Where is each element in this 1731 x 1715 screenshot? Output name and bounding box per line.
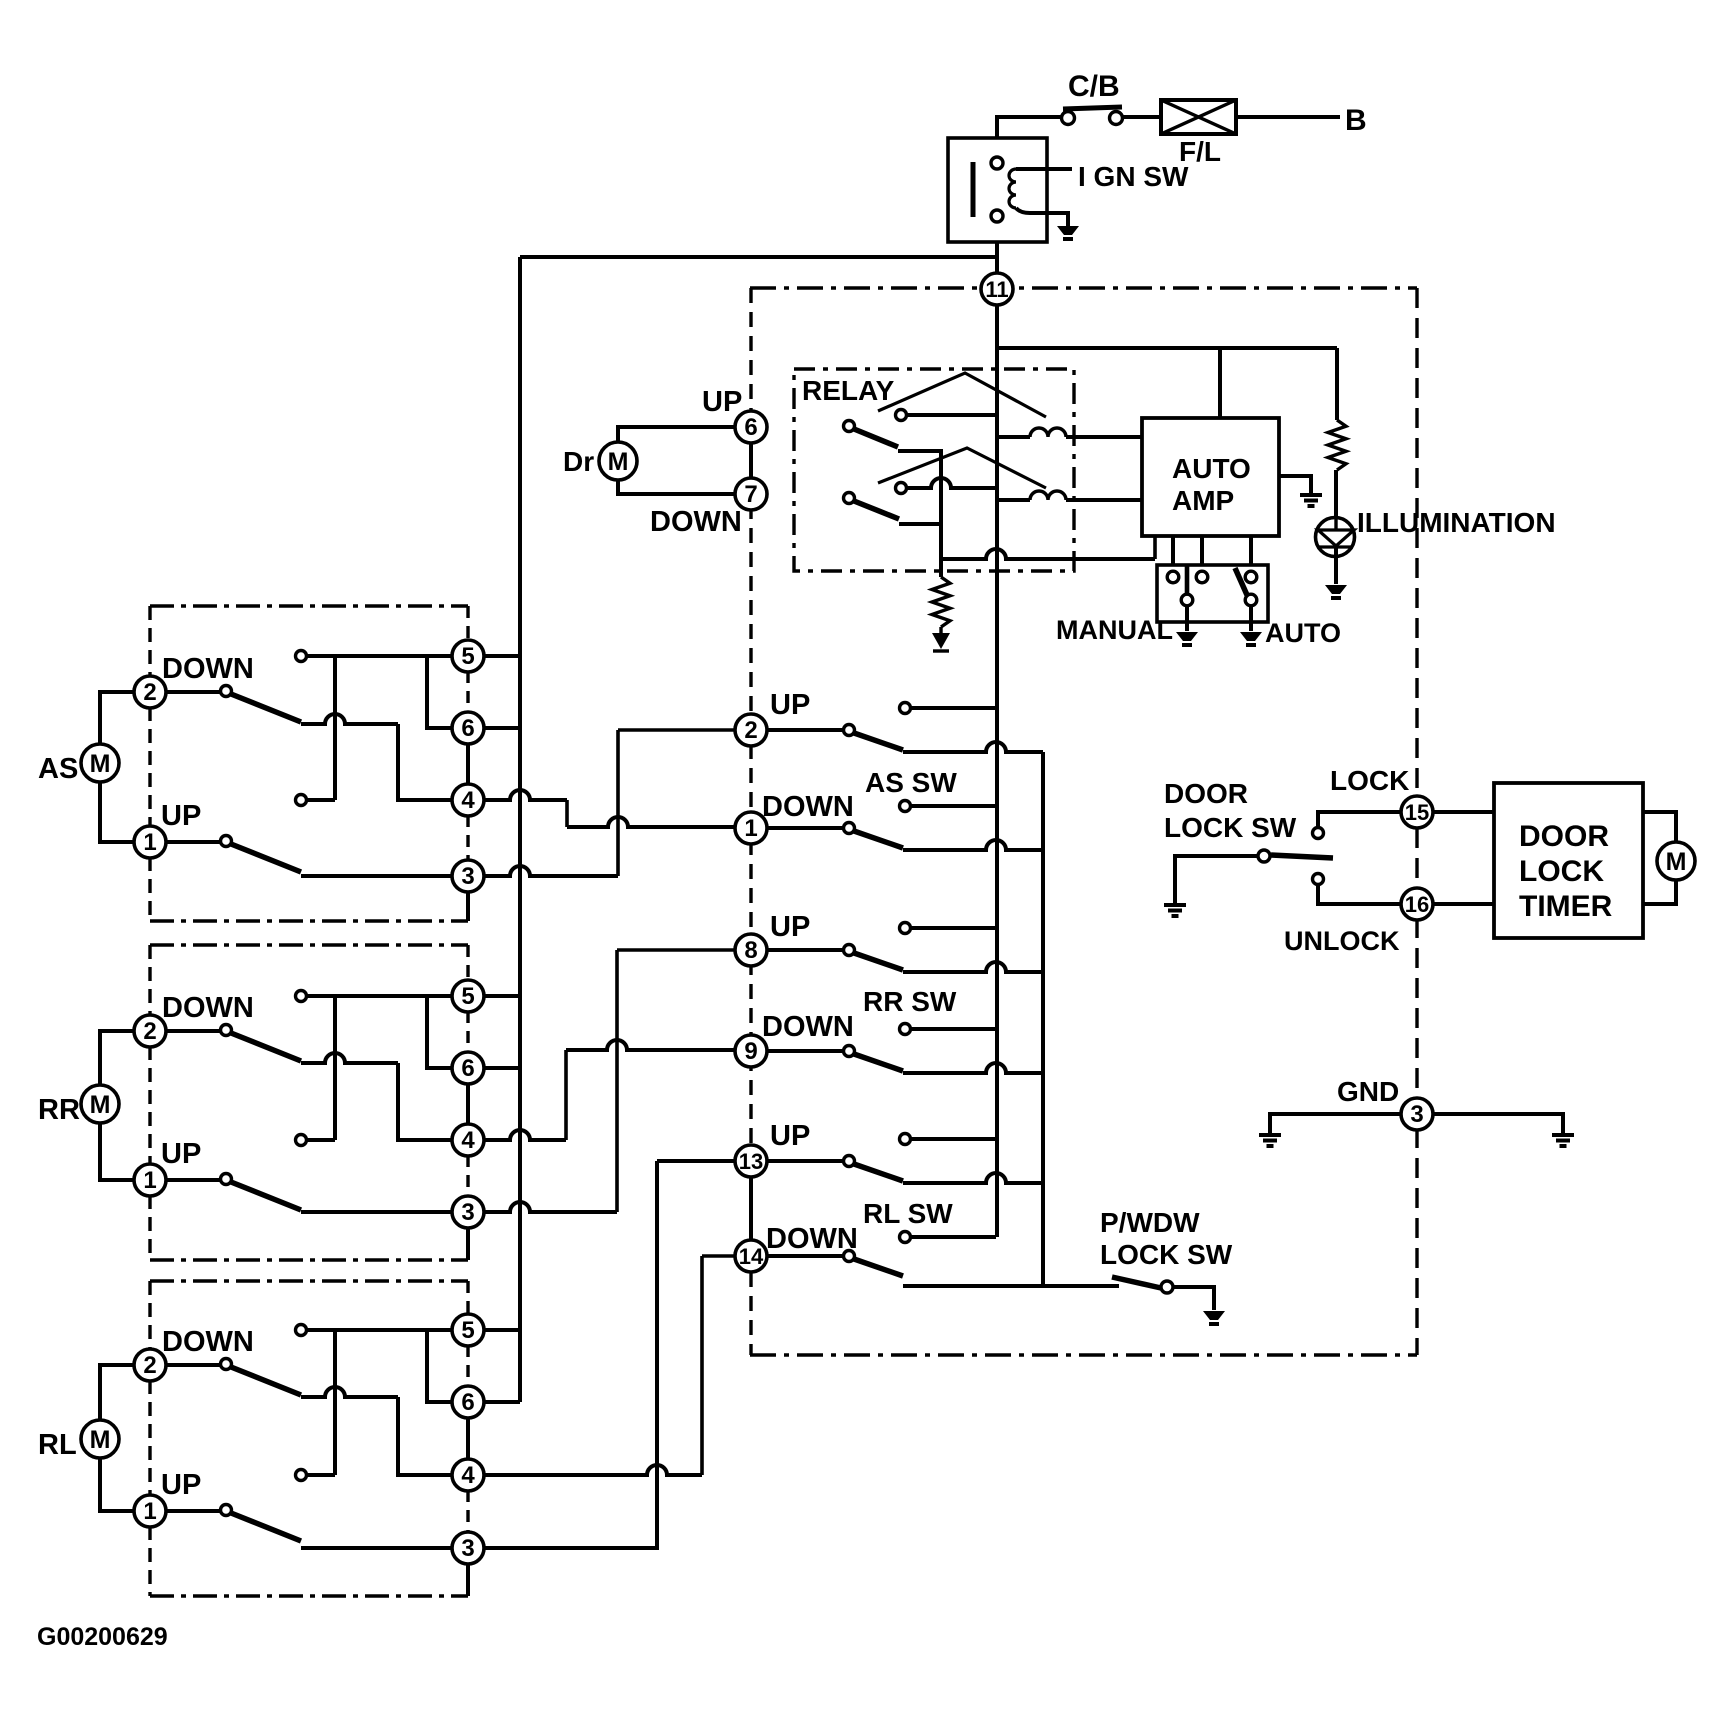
svg-text:13: 13 bbox=[739, 1149, 763, 1174]
ground (ignition switch) bbox=[1057, 226, 1079, 235]
svg-text:5: 5 bbox=[461, 1317, 474, 1344]
switch pivot (AS SW up) bbox=[844, 725, 855, 736]
svg-text:2: 2 bbox=[143, 679, 156, 706]
RL down switch pivot bbox=[221, 1359, 232, 1370]
svg-text:UP: UP bbox=[770, 689, 810, 721]
switch output link bus (right of main bus) bbox=[1041, 752, 1045, 1286]
ignition switch contact (bottom) bbox=[991, 210, 1003, 222]
RL terminal 4 bbox=[452, 1459, 484, 1491]
switch pivot (RR SW down) bbox=[844, 1046, 855, 1057]
selector contact auto-top bbox=[1245, 571, 1257, 583]
svg-text:9: 9 bbox=[744, 1038, 757, 1065]
ground (manual) bbox=[1176, 632, 1198, 641]
wire: AS contact row to terminal 5 bbox=[307, 654, 452, 658]
wire: AS SW down contact to main bus bbox=[911, 804, 996, 808]
terminal 8 wire to pivot bbox=[766, 948, 844, 952]
svg-text:ILLUMINATION: ILLUMINATION bbox=[1357, 507, 1556, 538]
RR lower contact bbox=[296, 1135, 307, 1146]
svg-text:15: 15 bbox=[1405, 800, 1429, 825]
AS window motor bbox=[81, 744, 119, 782]
svg-text:B: B bbox=[1345, 104, 1367, 137]
switch contact (RR SW down) bbox=[900, 1024, 911, 1035]
svg-text:5: 5 bbox=[461, 643, 474, 670]
terminal 14 wire to pivot bbox=[766, 1254, 844, 1258]
ground (auto amp) bbox=[1300, 493, 1322, 497]
wire: RR contact row to terminal 5 bbox=[307, 994, 452, 998]
wire: RR SW up blade output bbox=[903, 962, 1043, 972]
terminal 1 bbox=[735, 812, 767, 844]
svg-text:RR SW: RR SW bbox=[863, 986, 957, 1017]
relay coil 2 bbox=[996, 498, 1030, 502]
wire: RL terminal 4 to switch terminal 14 (hops RL link) bbox=[483, 1465, 702, 1475]
svg-text:1: 1 bbox=[143, 829, 156, 856]
svg-text:AS: AS bbox=[38, 753, 78, 785]
ground (GND left) bbox=[1259, 1133, 1281, 1137]
door lock switch pivot bbox=[1258, 850, 1270, 862]
svg-text:8: 8 bbox=[744, 937, 757, 964]
terminal 2 bbox=[735, 714, 767, 746]
svg-text:RR: RR bbox=[38, 1094, 80, 1126]
wire: RL lower contact stub bbox=[307, 1473, 335, 1477]
wire: AS terminal 3 to switch terminal 2 (hops left bus) bbox=[484, 866, 618, 876]
wire: ignition output to left bus bbox=[520, 255, 996, 259]
svg-text:11: 11 bbox=[985, 277, 1008, 302]
wire: RL motor to terminal 1 bbox=[100, 1458, 135, 1511]
switch pivot (RL SW up) bbox=[844, 1156, 855, 1167]
wire: fusible link to circuit breaker bbox=[1123, 115, 1161, 119]
selector manual pole contact bbox=[1181, 594, 1193, 606]
wire: AS terminal 6 to left bus bbox=[484, 726, 520, 730]
switch blade (RR SW down) bbox=[854, 1054, 903, 1071]
selector contact manual-top-1 bbox=[1167, 571, 1179, 583]
terminal 7 wire to driver motor bbox=[618, 480, 736, 494]
RL terminal 1 bbox=[134, 1495, 166, 1527]
svg-text:RELAY: RELAY bbox=[802, 375, 895, 406]
svg-text:C/B: C/B bbox=[1068, 70, 1120, 103]
RL terminal 6 bbox=[452, 1386, 484, 1418]
AS up switch blade bbox=[231, 844, 301, 872]
svg-text:LOCK: LOCK bbox=[1330, 765, 1409, 796]
wire: RR lower contact stub bbox=[307, 1138, 335, 1142]
wire: AS lower contact stub bbox=[307, 798, 335, 802]
wire: selector manual pole to ground bbox=[1185, 606, 1189, 631]
svg-text:6: 6 bbox=[461, 715, 474, 742]
wire: RL contact row to terminal 5 bbox=[307, 1328, 452, 1332]
relay dashed box bbox=[794, 369, 1074, 571]
AS internal link vertical bbox=[333, 656, 337, 800]
svg-text:DOWN: DOWN bbox=[650, 506, 742, 538]
wire: AS terminal 4 to switch terminal 1 (hops buses) bbox=[484, 790, 567, 800]
AS terminal 1 bbox=[134, 826, 166, 858]
door lock switch blade bbox=[1271, 855, 1333, 858]
svg-text:UP: UP bbox=[770, 911, 810, 943]
terminal 1 wire to pivot bbox=[766, 826, 844, 830]
RR up switch output wire to terminal 3 bbox=[301, 1210, 452, 1214]
AS lower contact bbox=[296, 795, 307, 806]
ignition switch coil bbox=[1009, 169, 1016, 208]
wire: timer to door lock motor (top) bbox=[1643, 812, 1676, 843]
RR window motor bbox=[81, 1085, 119, 1123]
AS terminal 6 bbox=[452, 712, 484, 744]
svg-text:M: M bbox=[90, 750, 111, 778]
switch pivot (RR SW up) bbox=[844, 945, 855, 956]
svg-text:LOCK: LOCK bbox=[1519, 855, 1604, 888]
RL terminal 2 wire to switch pivot bbox=[165, 1363, 220, 1367]
selector auto blade bbox=[1235, 568, 1247, 595]
AS terminal 5 bbox=[452, 640, 484, 672]
RL terminal 2 bbox=[134, 1349, 166, 1381]
svg-text:DOWN: DOWN bbox=[762, 1011, 854, 1043]
RL terminal 5 bbox=[452, 1314, 484, 1346]
svg-text:LOCK SW: LOCK SW bbox=[1100, 1239, 1233, 1270]
relay switch lower: pivot and blade bbox=[844, 493, 855, 504]
ground (illumination) bbox=[1325, 585, 1347, 594]
svg-text:Dr: Dr bbox=[563, 446, 594, 477]
wire: terminal 6 internal link bbox=[427, 996, 452, 1068]
svg-text:M: M bbox=[608, 448, 629, 476]
svg-text:4: 4 bbox=[461, 787, 475, 814]
switch blade (AS SW down) bbox=[854, 831, 903, 848]
terminal 13 wire to pivot bbox=[766, 1159, 844, 1163]
RR terminal 2 wire to switch pivot bbox=[165, 1029, 220, 1033]
relay switch upper: pivot and blade bbox=[844, 421, 855, 432]
svg-text:P/WDW: P/WDW bbox=[1100, 1207, 1200, 1238]
solid link between terminals 6 and 7 bbox=[749, 443, 753, 478]
wire: RL SW down contact to main bus bbox=[911, 1235, 996, 1239]
RR terminal 3 bbox=[452, 1196, 484, 1228]
AS terminal 4 bbox=[452, 784, 484, 816]
RR solid link terminal 3 to box bottom bbox=[466, 1227, 470, 1260]
switch blade (RR SW up) bbox=[854, 953, 903, 970]
wire: RR terminal 4 to switch terminal 9 (hops buses) bbox=[484, 1130, 566, 1140]
RL internal link vertical bbox=[333, 1330, 337, 1475]
relay lower switch output wire bbox=[899, 522, 941, 526]
solid link between terminals 13 and 14 bbox=[749, 1177, 753, 1240]
terminal 9 wire to pivot bbox=[766, 1049, 844, 1053]
RR down switch output wire (jog to terminal 4) bbox=[301, 1053, 398, 1063]
relay upper NC contact bbox=[896, 410, 907, 421]
RL terminal 1 wire to switch pivot bbox=[165, 1509, 220, 1513]
svg-text:M: M bbox=[90, 1091, 111, 1119]
illumination lamp bbox=[1316, 518, 1355, 557]
wire: RR terminal 6 to left bus bbox=[484, 1066, 520, 1070]
wire: door lock switch pole to ground bbox=[1175, 856, 1258, 904]
svg-text:DOWN: DOWN bbox=[162, 1326, 254, 1358]
left bus (window switch feed) bbox=[518, 257, 522, 1402]
wire: AS motor to terminal 2 bbox=[100, 692, 135, 744]
svg-text:RL SW: RL SW bbox=[863, 1198, 953, 1229]
svg-text:14: 14 bbox=[739, 1244, 764, 1269]
RR down switch blade bbox=[231, 1033, 301, 1061]
terminal 6 wire to driver motor bbox=[618, 427, 736, 442]
door lock timer box bbox=[1494, 783, 1643, 938]
RR terminal 5 bbox=[452, 980, 484, 1012]
wire: GND node to left ground bbox=[1270, 1114, 1402, 1134]
AS down switch pivot bbox=[221, 686, 232, 697]
switch contact (RL SW down) bbox=[900, 1232, 911, 1243]
RL upper contact (to terminal 5) bbox=[296, 1325, 307, 1336]
wire: auto amp to ground (right) bbox=[1279, 476, 1311, 494]
RR window switch box (dashed) bbox=[150, 943, 468, 946]
svg-text:M: M bbox=[90, 1426, 111, 1454]
svg-text:LOCK SW: LOCK SW bbox=[1164, 812, 1297, 843]
wire: AS SW up blade output bbox=[903, 742, 1043, 752]
terminal 14 bbox=[735, 1240, 767, 1272]
wire: RR terminal 5 to left bus bbox=[484, 994, 520, 998]
svg-text:1: 1 bbox=[143, 1498, 156, 1525]
AS solid link terminal 3 to box bottom bbox=[466, 891, 470, 921]
svg-text:AUTO: AUTO bbox=[1172, 453, 1251, 484]
auto amp pin 2 to selector bbox=[1200, 536, 1204, 566]
wire: lamp to ground bbox=[1334, 547, 1338, 584]
svg-text:G00200629: G00200629 bbox=[37, 1623, 168, 1651]
wire: battery feed B to fusible link bbox=[1237, 115, 1340, 119]
relay actuator arrow (upper) bbox=[878, 373, 1046, 417]
svg-text:3: 3 bbox=[461, 1535, 474, 1562]
wire: GND node to right ground bbox=[1433, 1114, 1563, 1134]
svg-text:RL: RL bbox=[38, 1429, 77, 1461]
svg-text:GND: GND bbox=[1337, 1076, 1399, 1107]
RL up switch pivot bbox=[221, 1505, 232, 1516]
svg-text:4: 4 bbox=[461, 1462, 475, 1489]
power window lock switch blade bbox=[1112, 1277, 1161, 1288]
terminal 7 bbox=[735, 478, 767, 510]
wire: RR SW up contact to main bus bbox=[911, 926, 996, 930]
RR internal link vertical bbox=[333, 996, 337, 1140]
ground arrow (relay resistor) bbox=[939, 627, 942, 633]
RL up switch blade bbox=[231, 1513, 301, 1541]
svg-text:DOOR: DOOR bbox=[1164, 778, 1248, 809]
wire: main bus to auto amp top / illumination feed bbox=[996, 346, 1337, 350]
svg-text:TIMER: TIMER bbox=[1519, 890, 1613, 923]
wire: terminal 15 to door lock timer bbox=[1433, 810, 1494, 814]
relay common wire down to resistor bbox=[939, 524, 943, 577]
wire: RR SW down blade output bbox=[903, 1063, 1043, 1073]
auto amp box bbox=[1142, 418, 1279, 536]
AS solid link terminal 6 to 4 bbox=[466, 743, 470, 785]
RL down switch output wire (jog to terminal 4) bbox=[301, 1387, 398, 1397]
wire: selector auto pole to ground bbox=[1249, 606, 1253, 631]
svg-text:2: 2 bbox=[143, 1352, 156, 1379]
RR terminal 1 bbox=[134, 1164, 166, 1196]
AS upper contact (to terminal 5) bbox=[296, 651, 307, 662]
svg-text:3: 3 bbox=[1410, 1101, 1423, 1128]
svg-text:UP: UP bbox=[702, 386, 742, 418]
wire: RL SW up blade output bbox=[903, 1173, 1043, 1183]
power window lock switch contact bbox=[1161, 1281, 1173, 1293]
wire: relay upper contact to main bus bbox=[907, 413, 996, 417]
selector auto pole contact bbox=[1245, 594, 1257, 606]
svg-text:6: 6 bbox=[461, 1055, 474, 1082]
selector manual pole wire bbox=[1185, 565, 1190, 594]
RR terminal 1 wire to switch pivot bbox=[165, 1178, 220, 1182]
relay actuator arrow (lower) bbox=[878, 448, 1046, 488]
wire: terminal 16 to door lock timer bbox=[1433, 902, 1494, 906]
switch contact (AS SW up) bbox=[900, 703, 911, 714]
svg-text:M: M bbox=[1666, 848, 1687, 876]
RR down switch pivot bbox=[221, 1025, 232, 1036]
wire: lock switch to ground bbox=[1173, 1287, 1214, 1310]
switch contact (AS SW down) bbox=[900, 801, 911, 812]
switch contact (RR SW up) bbox=[900, 923, 911, 934]
svg-text:16: 16 bbox=[1405, 892, 1429, 917]
auto amp pin 3 to selector bbox=[1249, 536, 1253, 566]
ground (door lock switch) bbox=[1164, 903, 1186, 907]
RR solid link terminal 6 to 4 bbox=[466, 1083, 470, 1125]
AS down switch output wire (jog to terminal 4) bbox=[301, 714, 398, 724]
wire: RL SW up contact to main bus bbox=[911, 1137, 996, 1141]
wire: timer to door lock motor (bottom) bbox=[1643, 880, 1676, 904]
RL terminal 3 bbox=[452, 1532, 484, 1564]
wire: resistor to illumination lamp bbox=[1334, 470, 1338, 530]
fusible link F/L bbox=[1161, 100, 1236, 134]
control-unit dash-dot box right edge bbox=[1415, 288, 1418, 1355]
svg-text:UP: UP bbox=[770, 1120, 810, 1152]
svg-text:4: 4 bbox=[461, 1127, 475, 1154]
AS terminal 3 bbox=[452, 860, 484, 892]
wire: relay lower contact to main bus (hops common) bbox=[907, 478, 996, 488]
wire: terminal 6 internal link bbox=[427, 1330, 452, 1402]
RL solid link terminal 6 to 4 bbox=[466, 1417, 470, 1460]
svg-text:DOOR: DOOR bbox=[1519, 820, 1609, 853]
svg-text:1: 1 bbox=[143, 1167, 156, 1194]
ignition switch IGN SW box bbox=[948, 138, 1047, 242]
svg-text:DOWN: DOWN bbox=[162, 653, 254, 685]
control-unit dash-dot box bottom edge bbox=[750, 1353, 1417, 1356]
AS up switch output wire to terminal 3 bbox=[301, 874, 452, 878]
svg-text:AS SW: AS SW bbox=[865, 767, 957, 798]
svg-text:UP: UP bbox=[161, 1138, 201, 1170]
RR up switch blade bbox=[231, 1182, 301, 1210]
wire: relay coil 2 to auto amp bbox=[1066, 498, 1142, 502]
wire: RL terminal 5 to left bus bbox=[483, 1328, 520, 1332]
wire: AS SW up contact to main bus bbox=[911, 706, 996, 710]
RR up switch pivot bbox=[221, 1174, 232, 1185]
terminal 3 (GND) bbox=[1401, 1098, 1433, 1130]
RR terminal 2 bbox=[134, 1015, 166, 1047]
door lock motor M bbox=[1657, 842, 1695, 880]
wire: LOCK contact to terminal 15 bbox=[1318, 812, 1401, 828]
AS terminal 2 bbox=[134, 676, 166, 708]
svg-text:DOWN: DOWN bbox=[162, 992, 254, 1024]
svg-text:5: 5 bbox=[461, 983, 474, 1010]
wire: RR motor to terminal 1 bbox=[100, 1123, 135, 1180]
driver window motor Dr bbox=[599, 442, 637, 480]
svg-text:UP: UP bbox=[161, 800, 201, 832]
terminal 2 wire to pivot bbox=[766, 728, 844, 732]
RL window switch box (dashed) bbox=[150, 1279, 468, 1282]
switch pivot (AS SW down) bbox=[844, 823, 855, 834]
RL up switch output wire to terminal 3 bbox=[301, 1546, 452, 1550]
svg-text:6: 6 bbox=[744, 414, 757, 441]
RL down switch blade bbox=[231, 1367, 301, 1395]
wire: RL terminal 3 to switch terminal 13 bbox=[483, 1161, 735, 1548]
ignition switch key bar bbox=[971, 162, 976, 217]
svg-text:2: 2 bbox=[143, 1018, 156, 1045]
wire: AS SW down blade output bbox=[903, 840, 1043, 850]
wire: circuit breaker to ignition switch bbox=[997, 117, 1062, 138]
AS window switch box (dashed) bbox=[150, 604, 468, 607]
svg-text:UP: UP bbox=[161, 1469, 201, 1501]
wire: relay common to auto amp (hops main bus) bbox=[941, 549, 1155, 559]
RR terminal 6 bbox=[452, 1052, 484, 1084]
wire: RL SW down blade output bbox=[903, 1284, 1119, 1288]
ground (auto) bbox=[1240, 632, 1262, 641]
ground (GND right) bbox=[1552, 1133, 1574, 1137]
manual/auto selector switch box bbox=[1157, 565, 1268, 622]
selector contact manual-top-2 bbox=[1196, 571, 1208, 583]
terminal 15 bbox=[1401, 796, 1433, 828]
control-unit dash-dot box top edge bbox=[750, 286, 1417, 289]
svg-text:UNLOCK: UNLOCK bbox=[1284, 926, 1400, 956]
relay upper switch output wire bbox=[898, 451, 941, 524]
auto amp pin 1 to selector bbox=[1171, 536, 1175, 566]
RR upper contact (to terminal 5) bbox=[296, 991, 307, 1002]
junction 11 (ignition feed node) bbox=[981, 273, 1013, 305]
wire: RR motor to terminal 2 bbox=[100, 1031, 135, 1085]
door lock switch UNLOCK contact bbox=[1313, 874, 1324, 885]
wire: RR terminal 3 to switch terminal 8 (hops left bus) bbox=[484, 1202, 617, 1212]
svg-text:3: 3 bbox=[461, 1199, 474, 1226]
wire: terminal 6 internal link bbox=[427, 656, 452, 728]
svg-text:7: 7 bbox=[744, 481, 757, 508]
wire: ignition coil to ground bbox=[1016, 208, 1068, 226]
RR terminal 4 bbox=[452, 1124, 484, 1156]
svg-text:2: 2 bbox=[744, 717, 757, 744]
svg-text:3: 3 bbox=[461, 863, 474, 890]
terminal 16 bbox=[1401, 888, 1433, 920]
svg-text:DOWN: DOWN bbox=[762, 791, 854, 823]
relay lower NC contact bbox=[896, 483, 907, 494]
terminal 6 bbox=[735, 411, 767, 443]
svg-text:MANUAL: MANUAL bbox=[1056, 615, 1173, 645]
svg-text:DOWN: DOWN bbox=[766, 1223, 858, 1255]
control-unit dash-dot box left edge bbox=[749, 288, 752, 1355]
switch contact (RL SW up) bbox=[900, 1134, 911, 1145]
switch blade (AS SW up) bbox=[854, 733, 903, 750]
terminal 9 bbox=[735, 1035, 767, 1067]
ground (power window lock switch) bbox=[1203, 1311, 1225, 1320]
switch blade (RL SW up) bbox=[854, 1164, 903, 1181]
svg-text:AMP: AMP bbox=[1172, 485, 1234, 516]
wire: RL motor to terminal 2 bbox=[100, 1365, 135, 1420]
wire: drop to auto amp top bbox=[1218, 348, 1222, 418]
switch blade (RL SW down) bbox=[854, 1259, 903, 1276]
wire: AS motor to terminal 1 bbox=[100, 782, 135, 842]
wire: RR SW down contact to main bus bbox=[911, 1027, 996, 1031]
AS terminal 1 wire to switch pivot bbox=[165, 840, 220, 844]
door lock switch LOCK contact bbox=[1313, 828, 1324, 839]
RL solid link terminal 3 to box bottom bbox=[466, 1563, 470, 1596]
relay coil 1 bbox=[996, 435, 1030, 439]
circuit breaker C/B bbox=[1062, 112, 1075, 125]
wire: ignition coil to label bbox=[1016, 167, 1072, 171]
RL window motor bbox=[81, 1420, 119, 1458]
wire: feed to illumination resistor bbox=[1335, 348, 1339, 420]
wire: AS terminal 5 to left bus bbox=[484, 654, 520, 658]
AS terminal 2 wire to switch pivot bbox=[165, 690, 220, 694]
switch pivot (RL SW down) bbox=[844, 1251, 855, 1262]
resistor (illumination) bbox=[1328, 420, 1346, 470]
terminal 13 bbox=[735, 1145, 767, 1177]
resistor (relay common) bbox=[932, 577, 950, 627]
svg-text:AUTO: AUTO bbox=[1265, 618, 1341, 648]
svg-text:I GN SW: I GN SW bbox=[1078, 161, 1189, 192]
terminal 8 bbox=[735, 934, 767, 966]
AS up switch pivot bbox=[221, 836, 232, 847]
main bus: ignition switch output down the page bbox=[995, 242, 999, 1237]
wire: relay coil 1 to auto amp bbox=[1066, 435, 1142, 439]
